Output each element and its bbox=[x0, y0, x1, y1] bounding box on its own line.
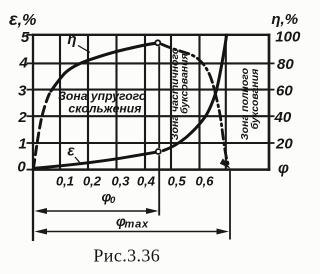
svg-text:100: 100 bbox=[275, 29, 301, 46]
svg-text:η: η bbox=[67, 31, 76, 48]
svg-text:40: 40 bbox=[274, 109, 292, 126]
svg-text:η,%: η,% bbox=[271, 11, 298, 28]
svg-text:2: 2 bbox=[17, 109, 27, 126]
svg-text:ε,%: ε,% bbox=[9, 9, 36, 29]
svg-text:Рис.3.36: Рис.3.36 bbox=[93, 246, 160, 266]
svg-text:0,6: 0,6 bbox=[195, 174, 214, 189]
svg-text:скольжения: скольжения bbox=[68, 102, 141, 116]
svg-text:0,3: 0,3 bbox=[111, 174, 130, 189]
svg-text:80: 80 bbox=[277, 56, 294, 73]
svg-text:0,1: 0,1 bbox=[56, 174, 74, 189]
svg-text:3: 3 bbox=[18, 82, 27, 99]
svg-text:буксования: буксования bbox=[179, 53, 191, 114]
svg-text:буксования: буксования bbox=[249, 69, 261, 130]
svg-text:0: 0 bbox=[110, 195, 116, 206]
svg-text:1: 1 bbox=[18, 136, 26, 153]
svg-text:20: 20 bbox=[275, 136, 293, 153]
svg-text:0: 0 bbox=[17, 158, 26, 175]
svg-text:60: 60 bbox=[276, 82, 293, 99]
svg-text:ε: ε bbox=[67, 143, 75, 160]
svg-text:5: 5 bbox=[21, 29, 30, 46]
svg-text:max: max bbox=[125, 219, 149, 231]
svg-text:0,2: 0,2 bbox=[83, 174, 102, 189]
svg-text:φ: φ bbox=[278, 160, 289, 177]
svg-text:4: 4 bbox=[18, 55, 28, 72]
svg-text:0,4: 0,4 bbox=[137, 174, 156, 189]
svg-text:0,5: 0,5 bbox=[168, 174, 187, 189]
